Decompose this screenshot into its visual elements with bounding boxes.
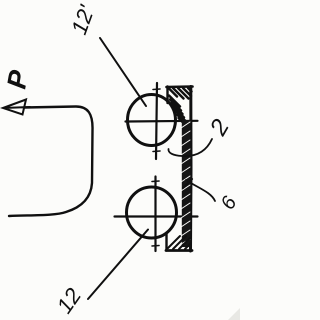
tick marks lower centerline xyxy=(152,181,159,246)
svg-text:6: 6 xyxy=(217,192,240,213)
label 12 xyxy=(52,283,87,317)
roller 12 (lower circle) xyxy=(127,187,177,238)
plate 2 top edge xyxy=(167,85,193,88)
plate 2 left upper edge xyxy=(166,87,168,104)
leader line 2 xyxy=(168,139,212,156)
leader line 12 xyxy=(88,230,148,300)
centerline vertical upper xyxy=(156,83,157,159)
leader 6 tick on plate xyxy=(183,179,192,188)
centerline vertical lower xyxy=(154,177,156,252)
tick marks upper centerline xyxy=(153,89,160,152)
plate 2 right edge xyxy=(189,87,193,252)
svg-text:12: 12 xyxy=(52,283,87,317)
scan smudge bottom-right corner xyxy=(228,308,240,320)
hatch band white speckle xyxy=(181,122,190,244)
leader line 12' xyxy=(100,38,146,106)
svg-text:P: P xyxy=(1,67,34,91)
svg-text:12': 12' xyxy=(66,1,100,37)
leader line 6 xyxy=(186,180,215,201)
label 6 xyxy=(217,192,242,213)
svg-text:2: 2 xyxy=(204,115,235,141)
plate 2 foot left edge xyxy=(165,233,167,251)
label P xyxy=(1,67,34,91)
arrow P shaft xyxy=(9,107,93,217)
centerline horizontal upper xyxy=(126,120,198,123)
hatching upper block xyxy=(169,88,192,128)
hatching foot xyxy=(168,236,191,249)
label 12' xyxy=(66,1,100,37)
arrowhead of P arrow xyxy=(3,100,30,115)
plate 2 foot bottom edge xyxy=(166,249,192,252)
roller 12' (upper circle) xyxy=(128,95,176,146)
centerline horizontal lower xyxy=(115,215,198,217)
hatch band middle fill xyxy=(182,120,191,247)
label 2 xyxy=(204,115,235,141)
